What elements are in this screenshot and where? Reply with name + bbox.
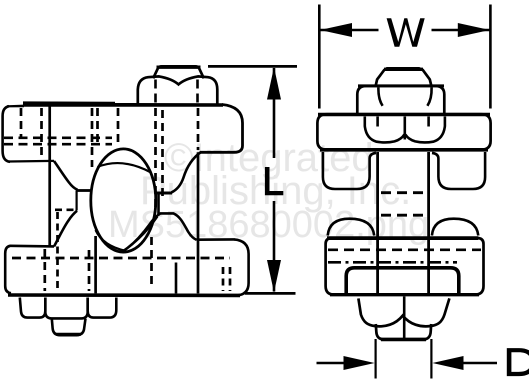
D arrow right pointing left	[432, 356, 463, 370]
bottom nut middle lobe	[45, 298, 87, 319]
dashed vertical x118 upper arm	[117, 108, 120, 146]
lower body dash-dot center line	[328, 261, 457, 264]
upper arm left cap	[3, 106, 10, 162]
upper arm top edge thick bar	[23, 101, 115, 106]
dashed vertical x21 upper arm	[20, 108, 23, 138]
groove inner tick left	[376, 117, 379, 127]
bolt tip bottom edge thick	[381, 338, 426, 342]
lower body bottom edge thick	[330, 293, 479, 296]
dashed vertical x230 lower arm	[229, 267, 232, 291]
upper-right jaw outer S-curve	[172, 152, 201, 192]
jaw groove curve right (inside body)	[405, 117, 445, 143]
L arrow up	[267, 67, 281, 100]
bottom nut left lobe	[20, 298, 46, 318]
bottom bolt tip	[52, 319, 86, 336]
dashed vertical x91 upper arm	[91, 108, 94, 167]
upper arm bottom edge left	[9, 160, 54, 163]
W extension line left	[318, 5, 321, 109]
D label	[507, 348, 529, 376]
ellipse bottom-left inner crescent arc	[96, 230, 126, 251]
dashed vertical x57.5	[56, 212, 59, 290]
dashed vertical x197.5 upper arm	[197, 108, 200, 150]
D arrow left pointing right	[344, 356, 375, 370]
lower-left jaw tip hidden edge dashed	[55, 208, 78, 211]
nut front face inner rect	[346, 268, 459, 294]
W arrow right	[458, 23, 490, 37]
lower-right nut edge solid	[175, 263, 178, 294]
ellipse right edge extension	[157, 195, 160, 215]
bottom bolt tip bottom edge thick	[56, 333, 81, 336]
hex head dashed thread x197.5	[196, 80, 199, 104]
D dimension line left segment	[317, 362, 346, 365]
dashed vertical x41.5 upper arm	[40, 108, 43, 158]
lower body top edge thick	[327, 236, 478, 240]
dashed vertical x151.5 lower arm	[150, 237, 153, 289]
hex head inner right chamfer arc	[427, 88, 431, 106]
lower arm top edge right	[197, 238, 235, 241]
hex head top edge full	[358, 84, 444, 87]
W arrow left	[320, 23, 352, 37]
hex head dashed thread x155.5	[154, 80, 157, 104]
top hex head outline	[138, 76, 218, 104]
upper jaw foot left	[323, 152, 376, 189]
L label	[265, 167, 283, 195]
L extension line bottom	[245, 292, 296, 295]
D dimension line right segment	[462, 362, 497, 365]
L extension line top	[208, 65, 297, 68]
dashed vertical x97.5 upper arm	[96, 108, 99, 147]
lower body rounded rect	[326, 238, 484, 295]
W extension line right	[489, 5, 492, 109]
dashed vertical x44.8 lower arm	[43, 249, 46, 291]
bolt tip below nut	[376, 324, 431, 340]
upper-right jaw tip bottom edge	[156, 192, 173, 195]
hex nut below outline	[358, 298, 449, 326]
wire hole ellipse	[91, 149, 156, 252]
lower body dashed line	[328, 249, 481, 252]
dashed vertical x162.5	[161, 110, 164, 196]
bolt tip top edge thick	[384, 68, 423, 71]
W dimension line left segment	[320, 29, 379, 32]
lower arm bottom edge thick	[8, 293, 240, 297]
top hex head cap top edge thick	[157, 65, 201, 68]
jaw groove curve left (inside body)	[365, 117, 405, 143]
shank dashed thread row 1	[381, 191, 423, 194]
main body rounded rect	[317, 114, 490, 150]
lower jaw dome right	[432, 219, 478, 236]
upper arm top edge left thin	[7, 105, 24, 108]
dashed horizontal y258 lower arm	[12, 257, 230, 260]
hex head front outline	[357, 86, 444, 113]
dashed vertical x155.5 through arm	[154, 108, 157, 212]
lower arm top edge left	[10, 245, 55, 248]
upper jaw foot right	[432, 152, 485, 189]
lower jaw dome left	[328, 219, 375, 236]
nut center line	[403, 297, 406, 340]
right bolt slot solid edge	[94, 236, 97, 293]
bolt shank left edge	[376, 152, 379, 294]
D extension line right	[430, 339, 432, 379]
shank dashed thread row 2	[381, 214, 423, 217]
left bolt slot solid edge	[48, 107, 51, 247]
dashed horizontal y138.8 upper arm	[4, 136, 112, 139]
body bottom edge thick	[320, 148, 488, 152]
top hex head cap	[153, 66, 204, 78]
W dimension line right segment	[432, 29, 491, 32]
upper bolt right solid edge	[197, 152, 200, 293]
dashed vertical x223 lower arm	[222, 267, 225, 291]
D extension line left	[375, 339, 377, 379]
lower-right jaw bell curve	[122, 213, 197, 252]
lower-right jaw inner sliver arc	[122, 217, 158, 252]
upper-left jaw outer S-curve	[54, 161, 78, 190]
L dimension line upper segment	[273, 68, 276, 158]
bolt shank right edge	[427, 152, 430, 294]
L dimension line lower segment	[273, 201, 276, 292]
dashed vertical x89 lower arm	[88, 250, 91, 291]
bolt tip trapezoid (top)	[376, 68, 431, 84]
upper arm right cap	[200, 105, 243, 153]
body top edge thick	[318, 113, 490, 116]
lower-left jaw outer S-curve	[54, 211, 77, 247]
upper-left jaw tip bottom edge	[77, 189, 92, 192]
ellipse top inner crescent arc	[98, 163, 152, 172]
lower arm right cap	[234, 239, 249, 295]
lower-left jaw inner edge vertical	[75, 191, 77, 211]
groove inner tick right	[427, 117, 430, 127]
hex head inner left chamfer arc	[378, 88, 382, 106]
W label	[387, 18, 425, 47]
dashed horizontal y144 upper arm	[4, 143, 112, 146]
groove center line	[403, 117, 406, 140]
lower arm left cap	[5, 246, 11, 293]
bottom nut right lobe	[88, 298, 117, 318]
L arrow down	[267, 260, 281, 292]
